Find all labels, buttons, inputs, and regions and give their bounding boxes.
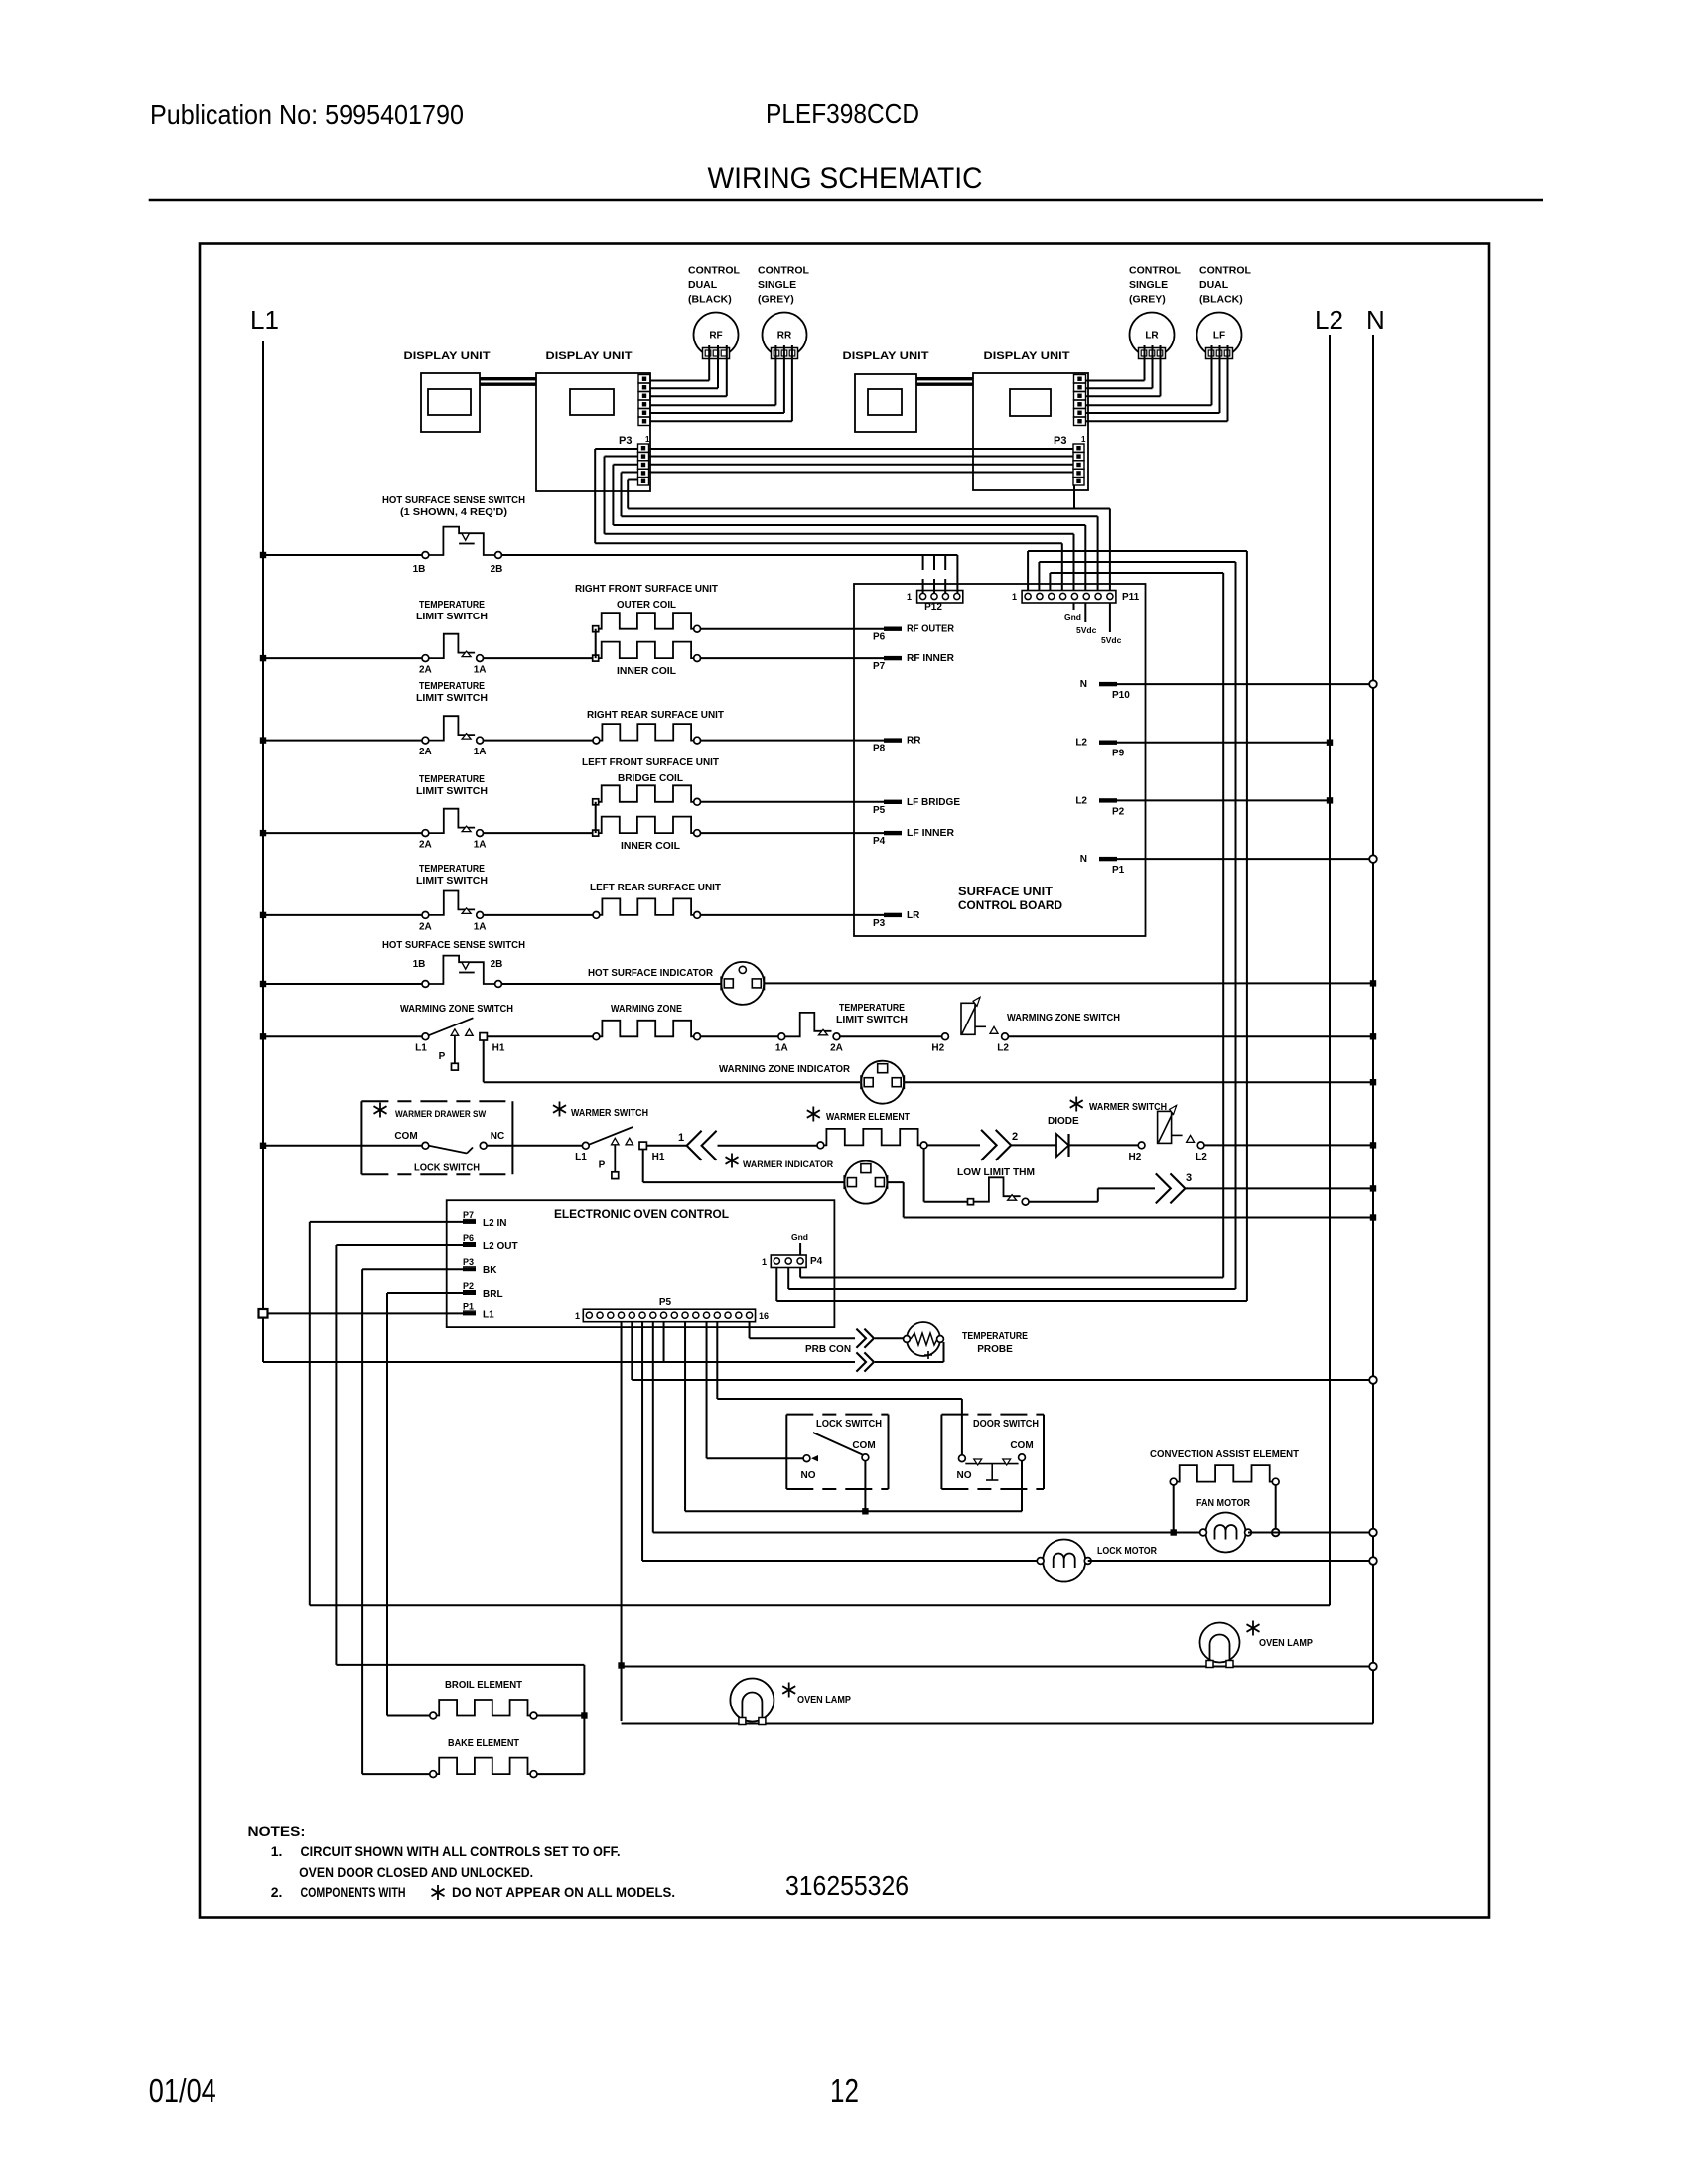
warmer element coil [824,1129,920,1146]
warmer L2 to N [1204,1144,1373,1146]
junction convection left [1171,1529,1177,1535]
RR wire to P8 [701,740,885,742]
svg-text:PROBE: PROBE [977,1344,1013,1355]
svg-text:P4: P4 [873,836,886,847]
row LF switch to coils [484,832,593,834]
warmer indicator to N [888,1182,1374,1217]
svg-text:P3: P3 [1054,435,1066,447]
svg-text:N: N [1080,679,1087,690]
warmer element star [807,1107,820,1122]
P11 Gnd stub [1073,603,1075,610]
svg-text:NOTES:: NOTES: [248,1823,306,1839]
row2 to hot surface indicator [501,983,721,985]
svg-text:DIODE: DIODE [1048,1116,1079,1127]
svg-text:2B: 2B [491,959,503,970]
svg-text:P1: P1 [463,1301,474,1311]
svg-text:3: 3 [1186,1172,1192,1184]
schematic border frame [200,244,1489,1918]
svg-text:CONTROL: CONTROL [1129,265,1181,277]
svg-text:WARMER SWITCH: WARMER SWITCH [571,1108,648,1119]
L1 tap hot surface row [263,554,422,556]
svg-text:2B: 2B [491,564,503,575]
svg-text:(1 SHOWN, 4 REQ'D): (1 SHOWN, 4 REQ'D) [400,507,507,518]
oven lamp 1 star [782,1683,795,1698]
svg-text:TEMPERATURE: TEMPERATURE [839,1003,905,1014]
wz indicator to N [905,1081,1374,1083]
svg-text:L2: L2 [1196,1152,1207,1162]
board pin P7 bar [884,656,902,660]
plug connector chevron PRB top [856,1329,866,1348]
board pin P10 bar [1099,682,1117,686]
RF outer wire to P6 [701,628,885,630]
junction L1 row RR [260,737,266,743]
right P3 pin5 drop to harness row [1073,485,1075,509]
svg-text:RR: RR [907,736,921,747]
svg-text:RF: RF [709,331,722,341]
junction broil right [581,1712,587,1718]
svg-text:LOCK SWITCH: LOCK SWITCH [414,1163,480,1174]
display unit 1 screen [428,389,471,415]
svg-text:DO NOT APPEAR ON ALL MODELS.: DO NOT APPEAR ON ALL MODELS. [452,1884,675,1900]
junction P9-L2 [1327,740,1333,746]
broil element row left [387,1715,430,1717]
junction P1-N [1369,855,1377,863]
probe plus mark [924,1351,932,1359]
display unit 2 connector P3 [638,444,649,485]
EOC pin P1 bar [463,1311,476,1315]
svg-text:TEMPERATURE: TEMPERATURE [419,600,485,611]
svg-text:LIMIT SWITCH: LIMIT SWITCH [836,1015,908,1025]
wires RR control to display connector [650,345,792,421]
chevron3 to N [1186,1187,1373,1189]
oven lamp2 row [622,1666,1373,1668]
svg-text:1A: 1A [474,747,487,757]
junction L1 hot surface row2 [260,981,266,987]
svg-text:OVEN LAMP: OVEN LAMP [797,1695,851,1706]
junction warmer N [1370,1142,1376,1148]
svg-text:LIMIT SWITCH: LIMIT SWITCH [416,693,488,704]
svg-text:P6: P6 [463,1233,474,1243]
junction P2-L2 [1327,797,1333,803]
P5 pin6 wire to lock motor [642,1322,1041,1562]
EOC pin P3 bar [463,1267,476,1271]
lock motor [1043,1540,1085,1582]
warming zone temperature limit switch [778,1033,785,1040]
svg-text:P1: P1 [1112,865,1125,876]
svg-text:P3: P3 [619,435,632,447]
wires LR control to display connector [1086,345,1161,396]
P12 stub pins with gaps [923,555,946,593]
svg-text:RF OUTER: RF OUTER [907,624,955,635]
ribbon cable units 1-2 [480,377,536,380]
svg-text:COMPONENTS WITH: COMPONENTS WITH [301,1884,406,1900]
P5 pin7 wire to fan motor [653,1322,1201,1533]
svg-text:LOCK SWITCH: LOCK SWITCH [816,1419,882,1430]
lock motor to N [1088,1560,1373,1562]
row RF switch to coils [484,657,593,659]
board pin P6 bar [884,627,902,631]
P5 pin5 wire to N [632,1322,1373,1381]
P5 pin16 wire to probe [750,1322,855,1339]
junction wz indicator N [1370,1079,1376,1085]
EOC L2 OUT wire [336,1245,463,1665]
EOC pin P3 underline [463,1266,476,1268]
svg-text:1A: 1A [775,1043,788,1054]
bake element row left [362,1773,430,1775]
svg-text:SINGLE: SINGLE [758,279,796,291]
P5 pin10 wire to switch commons [685,1322,1022,1512]
svg-text:LR: LR [1145,331,1159,341]
svg-text:CONVECTION ASSIST ELEMENT: CONVECTION ASSIST ELEMENT [1150,1449,1299,1460]
oven lamp 1 [730,1679,774,1722]
bridge coil left drop [595,802,597,833]
connector P12 [917,591,963,604]
junction pin5 N [1369,1376,1377,1384]
EOC pin P2 bar [463,1291,476,1295]
convection left drop [1173,1485,1175,1533]
lock switch dashed box [785,1415,787,1489]
svg-text:P7: P7 [463,1210,474,1220]
warmer drawer switch contacts [422,1142,429,1149]
svg-text:DUAL: DUAL [688,279,718,291]
junction L1 row LF [260,830,266,836]
L1 tap warming zone row [263,1035,422,1037]
svg-text:H2: H2 [1129,1152,1142,1162]
P5 pin8 wire to L1 run [663,1322,665,1363]
temperature limit switch row RR [422,737,429,744]
svg-text:RR: RR [777,331,792,341]
board P2 wire to L2 [1117,799,1330,801]
display unit 2 box [536,373,650,491]
svg-text:P5: P5 [873,805,886,816]
P5 pin12 wire to lock NO [707,1322,803,1459]
display unit 2 screen [570,389,614,415]
door switch dashed box [940,1415,942,1489]
svg-text:5Vdc: 5Vdc [1101,635,1122,645]
junction P10-N [1369,680,1377,688]
surface control LR [1130,313,1175,357]
control knob caption at x=693 [688,265,740,306]
ribbon cable units 3-4 [916,377,973,380]
board P9 wire to L2 [1117,742,1330,744]
svg-text:RIGHT REAR SURFACE UNIT: RIGHT REAR SURFACE UNIT [587,710,724,721]
junction lock COM [862,1508,868,1514]
svg-text:LOW LIMIT THM: LOW LIMIT THM [957,1167,1035,1178]
junction L1 warming zone [260,1033,266,1039]
svg-text:LF INNER: LF INNER [907,828,955,839]
svg-text:ELECTRONIC OVEN CONTROL: ELECTRONIC OVEN CONTROL [554,1209,729,1221]
svg-text:DISPLAY UNIT: DISPLAY UNIT [546,350,633,362]
display unit 4 screen [1010,389,1051,416]
svg-text:L1: L1 [250,305,279,335]
L2 riser to oven control [310,1222,463,1605]
plug connector chevron 1 [687,1131,702,1160]
LF inner coil [599,817,694,834]
svg-text:BROIL ELEMENT: BROIL ELEMENT [445,1680,522,1691]
plug connector chevron PRB [856,1352,866,1371]
diode [1056,1134,1069,1157]
svg-text:RF INNER: RF INNER [907,653,955,664]
board pin P2 bar [1099,798,1117,802]
svg-text:DISPLAY UNIT: DISPLAY UNIT [984,350,1070,362]
temperature limit switch row RF [422,655,429,662]
board pin P5 bar [884,800,902,804]
svg-text:L2: L2 [1315,305,1343,335]
svg-text:L1: L1 [415,1043,427,1054]
svg-text:BK: BK [483,1265,497,1276]
P11 5Vdc stub a [1084,603,1086,622]
bake element coil [437,1758,530,1775]
svg-text:P8: P8 [873,744,886,754]
svg-text:INNER COIL: INNER COIL [621,841,680,852]
EOC pin P6 underline [463,1242,476,1244]
low limit thermostat switch [968,1199,974,1205]
svg-text:P: P [599,1160,606,1171]
junction L1 row LR [260,912,266,918]
svg-text:H1: H1 [652,1152,665,1162]
warmer row NC to warmer switch [487,1145,582,1147]
svg-text:2.: 2. [271,1884,283,1900]
warmer switch star [553,1102,566,1117]
svg-text:OVEN LAMP: OVEN LAMP [1259,1638,1313,1649]
header rule [149,199,1543,202]
control knob caption at x=763 [758,265,809,306]
svg-text:2A: 2A [419,665,432,676]
svg-text:RIGHT FRONT SURFACE UNIT: RIGHT FRONT SURFACE UNIT [575,584,718,595]
L1 bus run after chevron [875,1342,944,1362]
svg-text:BAKE ELEMENT: BAKE ELEMENT [448,1738,519,1749]
chevron1 to warmer element [718,1145,818,1147]
svg-text:HOT SURFACE SENSE SWITCH: HOT SURFACE SENSE SWITCH [382,495,525,506]
svg-text:WARMING ZONE SWITCH: WARMING ZONE SWITCH [400,1004,513,1015]
L1 tap row LF [263,832,422,834]
svg-text:(GREY): (GREY) [758,294,794,306]
warmer indicator [844,1161,887,1204]
svg-text:WARMING ZONE: WARMING ZONE [611,1004,682,1015]
wz limit switch to H2 [840,1035,942,1037]
svg-text:1: 1 [1081,435,1086,444]
connector P11 [1022,591,1116,604]
RR coil [600,724,694,741]
svg-text:L2 OUT: L2 OUT [483,1241,518,1252]
junction wz N [1370,1033,1376,1039]
temperature limit switch row LR [422,912,429,919]
surface control RF [694,313,739,357]
junction convection right [1272,1529,1280,1537]
svg-text:316255326: 316255326 [785,1870,909,1901]
svg-text:1: 1 [678,1132,684,1144]
svg-text:P2: P2 [1112,806,1125,817]
L1 bus [263,341,664,1362]
L1 bus lower run to probe connector [664,1361,856,1363]
svg-text:SURFACE UNIT: SURFACE UNIT [958,887,1053,898]
surface control LF [1197,313,1242,357]
svg-text:TEMPERATURE: TEMPERATURE [419,681,485,692]
svg-text:1.: 1. [271,1843,283,1859]
board P1 wire to N [1117,858,1373,860]
display unit 2 edge connector [638,375,650,426]
svg-text:(BLACK): (BLACK) [1199,294,1243,306]
svg-text:CONTROL: CONTROL [758,265,809,277]
display unit 3 screen [868,389,902,415]
svg-text:1B: 1B [413,959,426,970]
P4 Gnd stub [799,1243,801,1255]
svg-text:WARNING ZONE INDICATOR: WARNING ZONE INDICATOR [719,1064,851,1075]
svg-text:NC: NC [491,1131,504,1142]
svg-text:INNER COIL: INNER COIL [617,666,676,677]
display unit 3 box [855,374,916,432]
svg-text:PRB CON: PRB CON [805,1344,851,1355]
svg-text:WARMER SWITCH: WARMER SWITCH [1089,1102,1167,1113]
svg-text:LIMIT SWITCH: LIMIT SWITCH [416,612,488,622]
L1 tap row LR [263,914,422,916]
warmer element to chevron2 [927,1144,980,1146]
svg-text:1: 1 [575,1311,580,1321]
chevron2 to diode [1012,1144,1057,1146]
svg-text:2A: 2A [419,747,432,757]
junction lamp riser [618,1662,624,1668]
broil element row right [537,1715,584,1717]
svg-text:PLEF398CCD: PLEF398CCD [766,98,919,129]
LR wire to P3 [701,914,885,916]
svg-text:Publication No: 5995401790: Publication No: 5995401790 [150,99,464,130]
low limit to chevron3 [1029,1188,1155,1201]
RF inner wire to P7 [701,657,885,659]
svg-text:P4: P4 [810,1256,823,1267]
warmer element branch down [924,1149,968,1202]
EOC BK wire [362,1269,463,1774]
wz L2 to N bus [1008,1035,1373,1037]
svg-text:TEMPERATURE: TEMPERATURE [419,864,485,875]
surface unit control board box [854,584,1146,936]
EOC L1 row [263,1312,463,1314]
svg-text:DUAL: DUAL [1199,279,1229,291]
display unit 4 box [973,373,1088,490]
lock switch contacts [803,1455,810,1462]
svg-text:P9: P9 [1112,749,1125,759]
EOC BRL wire [387,1293,463,1716]
svg-text:1: 1 [907,592,912,602]
svg-text:HOT SURFACE INDICATOR: HOT SURFACE INDICATOR [588,968,714,979]
wz coil to limit switch [701,1035,779,1037]
junction L1 hot surface row [260,552,266,558]
EOC pin P1 underline [463,1310,476,1312]
svg-text:LEFT FRONT SURFACE UNIT: LEFT FRONT SURFACE UNIT [582,757,719,768]
fan motor [1206,1513,1246,1553]
LF inner wire to P4 [701,832,885,834]
row LR switch to coil [484,914,594,916]
svg-text:(BLACK): (BLACK) [688,294,732,306]
display unit 4 connector P3 [1073,444,1084,485]
far right vertical to P4 wire c [800,573,1223,1278]
svg-text:P: P [439,1051,446,1062]
EOC pin P6 bar [463,1243,476,1247]
board P10 wire to N [1117,683,1373,685]
svg-text:WARMER DRAWER SW: WARMER DRAWER SW [395,1109,486,1120]
fan motor to N [1248,1532,1373,1534]
chevron to probe left [875,1337,904,1339]
junction lamp2 N [1369,1663,1377,1671]
svg-text:L2 IN: L2 IN [483,1218,506,1229]
far right vertical to P4 wire b [788,562,1235,1289]
svg-text:P5: P5 [659,1297,672,1308]
board pin P9 bar [1099,741,1117,745]
plug connector chevron 2 [981,1130,997,1160]
svg-text:12: 12 [830,2072,859,2109]
L1 tap row RF [263,657,422,659]
svg-text:CONTROL: CONTROL [688,265,740,277]
svg-text:L2: L2 [997,1043,1009,1054]
svg-text:L2: L2 [1075,795,1087,806]
svg-text:L2: L2 [1075,738,1087,749]
oven lamp 2 star [1247,1621,1260,1636]
svg-text:BRL: BRL [483,1289,503,1299]
svg-text:LF BRIDGE: LF BRIDGE [907,797,960,808]
svg-text:1A: 1A [474,665,487,676]
electronic oven control box [447,1200,835,1327]
wz H1 branch down [484,1040,860,1083]
door switch contacts [959,1455,966,1462]
svg-text:DISPLAY UNIT: DISPLAY UNIT [843,350,929,362]
junction lock motor N [1369,1557,1377,1565]
surface control RR [763,313,807,357]
P3-to-P3 interconnect wires [649,449,1074,473]
lock COM drop [864,1461,866,1512]
svg-text:COM: COM [394,1131,417,1142]
svg-text:DISPLAY UNIT: DISPLAY UNIT [404,350,491,362]
hot surface sense switch 1 [422,552,429,559]
svg-text:HOT SURFACE SENSE SWITCH: HOT SURFACE SENSE SWITCH [382,940,525,951]
outer coil left drop [595,629,597,658]
svg-text:1: 1 [1012,592,1017,602]
svg-text:P3: P3 [873,918,886,929]
harness rows P3 to P11 pins 4-8 [595,509,1110,593]
hot surface row to P12 [501,555,957,593]
svg-text:LR: LR [907,910,920,921]
svg-text:P12: P12 [924,602,942,613]
svg-text:CONTROL: CONTROL [1199,265,1251,277]
svg-text:WARMING ZONE SWITCH: WARMING ZONE SWITCH [1007,1013,1120,1024]
display unit 4 edge connector [1074,375,1086,426]
L1 tap row RR [263,740,422,742]
svg-text:P2: P2 [463,1281,474,1291]
convection right drop [1275,1485,1277,1529]
junction hot surface row N [1370,980,1376,986]
svg-text:P7: P7 [873,661,886,672]
far right vertical to P4 wire a [776,551,1247,1301]
P5 pin13 wire to door NO [717,1322,962,1455]
svg-text:WARMER ELEMENT: WARMER ELEMENT [826,1112,910,1123]
svg-text:2: 2 [1012,1131,1018,1143]
svg-text:TEMPERATURE: TEMPERATURE [962,1331,1028,1342]
warmer switch right star [1070,1097,1083,1112]
EOC pin P2 underline [463,1290,476,1292]
warmer switch 2 [1138,1142,1145,1149]
control knob caption at x=1137 [1129,265,1181,306]
warmer H1 branch down [643,1149,844,1182]
svg-text:(GREY): (GREY) [1129,294,1166,306]
EOC pin P7 bar [463,1220,476,1224]
N bus [623,335,1373,1724]
harness loop left of P3 [595,449,637,543]
svg-text:COM: COM [1010,1440,1033,1451]
warming zone indicator [861,1061,904,1104]
warmer drawer switch star [374,1103,387,1118]
svg-text:WIRING SCHEMATIC: WIRING SCHEMATIC [708,162,983,195]
svg-text:L1: L1 [575,1152,587,1162]
display unit 1 box [421,373,480,432]
svg-text:COM: COM [852,1440,875,1451]
